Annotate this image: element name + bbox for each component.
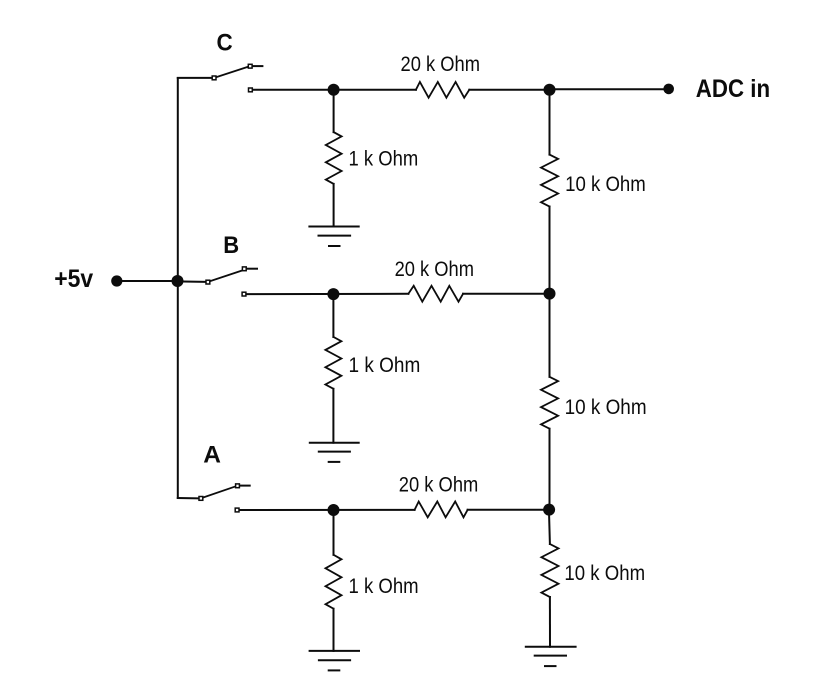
svg-text:1 k Ohm: 1 k Ohm — [349, 575, 419, 598]
wire rail C-B — [549, 96, 551, 155]
wire 1k C to ground — [333, 184, 335, 227]
switch B pole contact — [206, 280, 210, 284]
svg-text:20 k Ohm: 20 k Ohm — [401, 53, 481, 76]
svg-text:1 k Ohm: 1 k Ohm — [349, 148, 419, 171]
svg-text:+5v: +5v — [54, 265, 93, 293]
switch B lever — [211, 271, 242, 282]
node +5v terminal dot — [111, 275, 122, 286]
switch A upper contact — [236, 484, 240, 488]
switch B pole stub wire — [183, 281, 205, 283]
svg-text:10 k Ohm: 10 k Ohm — [565, 173, 646, 196]
resistor 10k top zigzag — [541, 155, 558, 207]
svg-text:ADC in: ADC in — [696, 75, 770, 103]
switch C pole contact — [212, 76, 216, 80]
node row C junction — [328, 84, 340, 96]
wire row C right — [469, 89, 549, 91]
svg-text:1 k Ohm: 1 k Ohm — [349, 354, 421, 377]
resistor 1k row A zigzag — [326, 555, 342, 609]
switch C lever — [217, 67, 248, 77]
switch B upper contact — [242, 267, 246, 271]
switch A lever — [204, 487, 236, 498]
wire row A right — [468, 509, 549, 511]
resistor 1k row A: wire down — [333, 516, 335, 555]
wire rail B-A — [549, 300, 551, 377]
resistor 1k row C: wire down — [333, 96, 335, 133]
svg-text:A: A — [203, 441, 221, 468]
svg-text:10 k Ohm: 10 k Ohm — [565, 396, 647, 419]
wire switch B upper stub — [247, 268, 257, 270]
switch C upper contact — [248, 64, 252, 68]
wire rail to A row — [549, 429, 551, 510]
wire +5v to bus — [121, 280, 177, 282]
node bus junction — [172, 275, 184, 287]
node rail A junction — [543, 504, 555, 516]
wire vertical bus — [177, 78, 179, 498]
wire switch C upper stub — [253, 65, 263, 67]
wire rail to B row — [549, 207, 551, 294]
resistor 1k row B: wire down — [332, 300, 334, 337]
resistor 20k row A zigzag — [415, 502, 468, 518]
svg-text:C: C — [217, 29, 233, 56]
switch B lower contact — [242, 292, 246, 296]
node row B junction — [327, 288, 339, 300]
resistor 1k row C zigzag — [326, 132, 342, 184]
resistor 1k row B zigzag — [325, 337, 341, 389]
node rail mid junction — [544, 288, 556, 300]
wire to ADC terminal — [550, 88, 664, 90]
resistor 10k mid zigzag — [541, 377, 558, 429]
wire switch A upper stub — [240, 485, 250, 487]
wire 1k B to ground — [332, 389, 334, 443]
switch A pole stub wire — [178, 497, 199, 499]
switch C pole stub wire — [178, 77, 212, 79]
svg-text:20 k Ohm: 20 k Ohm — [395, 258, 474, 281]
wire row C left — [253, 89, 416, 91]
wire row A left — [240, 509, 415, 511]
resistor 10k bottom zigzag — [541, 544, 558, 597]
switch A pole contact — [199, 497, 203, 501]
ground B — [310, 443, 359, 462]
ground C — [309, 227, 358, 247]
node row A junction — [328, 504, 340, 516]
resistor 20k row B zigzag — [408, 286, 463, 302]
wire row B right — [463, 293, 549, 295]
resistor 20k row C zigzag — [416, 82, 469, 98]
switch C lower contact — [249, 88, 253, 92]
svg-text:B: B — [223, 232, 239, 259]
wire row B left — [247, 293, 409, 295]
wire rail to ground — [549, 597, 551, 647]
ground rail — [526, 647, 576, 666]
svg-text:20 k Ohm: 20 k Ohm — [399, 474, 479, 497]
wire 1k A to ground — [333, 609, 335, 651]
switch A lower contact — [235, 508, 239, 512]
ground A — [310, 651, 359, 671]
node rail top junction — [544, 84, 556, 96]
wire rail below A — [548, 515, 551, 544]
svg-text:10 k Ohm: 10 k Ohm — [564, 562, 645, 585]
node ADC terminal dot — [663, 84, 674, 95]
